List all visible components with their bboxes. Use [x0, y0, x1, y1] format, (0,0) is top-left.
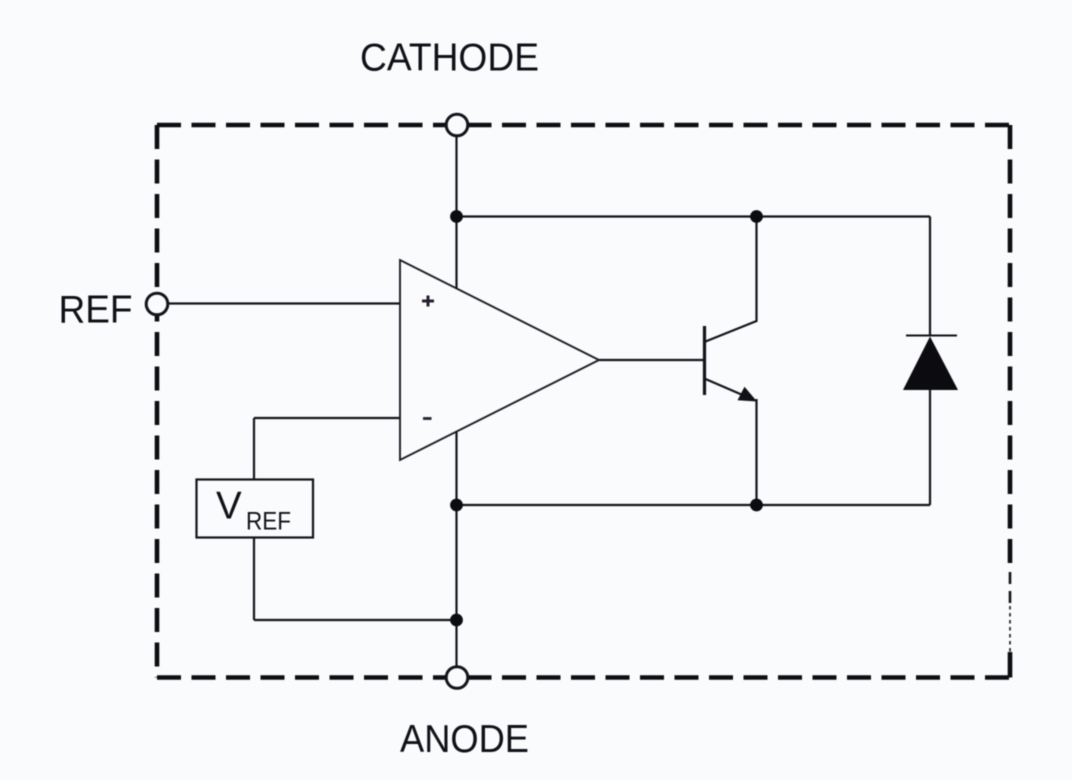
- wire: cathode-to-anode vertical line: [455, 125, 457, 678]
- IC boundary dashed border: top side: [157, 123, 1010, 128]
- IC boundary dashed border: right side (lower, faint scan artifact): [1009, 572, 1012, 606]
- wire: top rail: [457, 215, 931, 217]
- wire: VREF box bottom down: [253, 538, 255, 621]
- junction dot at bottom rail / cathode line: [450, 499, 463, 512]
- IC boundary dashed border: left side: [155, 125, 160, 678]
- IC boundary dashed border: bottom side: [157, 675, 1010, 680]
- VREF reference voltage box: [197, 480, 314, 538]
- wire: diode top vertical: [929, 217, 931, 337]
- svg-text:REF: REF: [59, 289, 133, 332]
- svg-text:REF: REF: [246, 508, 291, 536]
- diode D1 filled triangle: [903, 337, 958, 391]
- CATHODE pin circle: [446, 114, 468, 136]
- IC boundary dashed border: right side (dotted scan artifact): [1009, 606, 1011, 652]
- wire: minus input down to VREF box top: [253, 418, 255, 480]
- wire: op-amp output to transistor base: [599, 359, 703, 361]
- wire: REF input to op-amp + input: [157, 302, 400, 304]
- op-amp plus input sign: [422, 296, 434, 307]
- wire: VREF bottom horizontal to main vertical: [254, 619, 457, 621]
- ANODE pin circle: [446, 667, 468, 689]
- transistor Q1 emitter arrowhead: [738, 387, 758, 402]
- svg-text:ANODE: ANODE: [400, 718, 529, 761]
- op-amp U1 error amplifier triangle: [400, 260, 599, 460]
- REF pin circle: [146, 293, 168, 315]
- svg-text:V: V: [216, 485, 242, 528]
- wire: diode bottom vertical: [929, 389, 931, 505]
- op-amp minus input sign: [423, 417, 432, 420]
- svg-text:CATHODE: CATHODE: [360, 37, 539, 80]
- transistor Q1 base bar: [703, 326, 706, 395]
- wire: transistor collector up to top rail: [706, 217, 757, 342]
- junction dot at top rail / cathode line: [450, 210, 463, 223]
- wire: bottom rail: [457, 504, 931, 506]
- diode D1 cathode bar: [906, 335, 957, 337]
- junction dot at bottom rail / emitter: [750, 499, 763, 512]
- IC boundary dashed border: right side (upper): [1008, 125, 1013, 572]
- junction dot at top rail / collector: [750, 210, 763, 223]
- junction dot at VREF return / main vertical: [450, 614, 463, 627]
- IC boundary dashed border: right side corner dash: [1008, 652, 1013, 678]
- wire: transistor emitter down to bottom rail: [706, 379, 754, 400]
- wire: op-amp minus input horizontal: [254, 417, 400, 419]
